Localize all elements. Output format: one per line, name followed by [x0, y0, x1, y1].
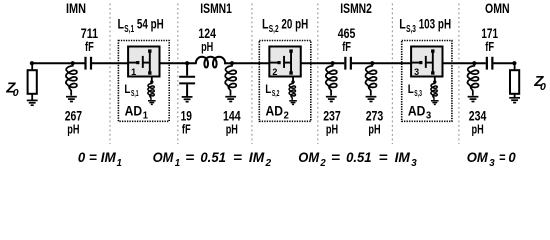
ground (small) [431, 101, 439, 105]
svg-text:20 pH: 20 pH [281, 16, 308, 32]
capacitor C1 711 fF (series) [86, 57, 92, 70]
svg-text:1: 1 [131, 67, 136, 77]
section separator (dotted) [177, 4, 179, 145]
svg-text:S,3: S,3 [406, 24, 416, 35]
capacitor C3 465 fF (series) [345, 57, 351, 70]
svg-text:pH: pH [368, 122, 380, 137]
amplifier stage dashed box AD3 [402, 41, 452, 122]
wire (cell 1 to L2) [159, 62, 193, 64]
svg-text:0: 0 [508, 149, 515, 165]
svg-text:1: 1 [117, 158, 123, 169]
svg-text:S,1: S,1 [124, 24, 134, 35]
section separator (dotted) [391, 4, 393, 145]
section separator (dotted) [251, 4, 253, 145]
inductor LS2 (source degeneration coil) [289, 82, 295, 100]
ground [27, 100, 38, 105]
wire [31, 94, 33, 101]
inductor L1 267 pH (shunt) [66, 63, 77, 95]
svg-text:3: 3 [411, 158, 417, 169]
svg-text:0.51: 0.51 [200, 149, 226, 165]
svg-text:pH: pH [326, 122, 338, 137]
wire (cell 3 to C4) [442, 62, 486, 64]
ground [509, 98, 520, 103]
svg-text:IM: IM [395, 149, 411, 165]
svg-text:2: 2 [272, 67, 277, 77]
svg-text:0: 0 [540, 81, 546, 93]
transistor Q2 (FET symbol) [269, 51, 291, 73]
section separator (dotted) [458, 4, 460, 145]
ground [366, 97, 377, 102]
svg-text:L: L [118, 16, 125, 32]
svg-text:L: L [262, 16, 269, 32]
svg-text:IM: IM [101, 149, 116, 165]
wire (C4 to output node) [494, 62, 515, 64]
svg-text:=: = [185, 149, 194, 165]
svg-text:=: = [379, 149, 388, 165]
transistor pins (pads) [277, 49, 292, 74]
svg-text:fF: fF [85, 39, 94, 54]
svg-text:ISMN1: ISMN1 [200, 0, 232, 16]
inductor L2 124 pH (series) [193, 57, 225, 68]
ground [326, 97, 337, 102]
svg-text:S,2: S,2 [269, 24, 279, 35]
svg-text:pH: pH [226, 122, 238, 137]
inductor L4 237 pH (shunt) [326, 63, 337, 95]
svg-text:=: = [89, 149, 97, 165]
node (output) [512, 61, 516, 65]
transistor cell box 3 [411, 47, 442, 77]
node (source) [433, 80, 436, 83]
svg-text:2: 2 [284, 111, 290, 122]
transistor pins (pads) [136, 49, 151, 74]
svg-text:pH: pH [201, 39, 213, 54]
ground (small) [289, 101, 297, 105]
amplifier stage dashed box AD2 [259, 41, 311, 122]
svg-text:0.51: 0.51 [346, 149, 372, 165]
svg-text:OM: OM [467, 149, 488, 165]
inductor LS1 (source degeneration coil) [148, 82, 154, 100]
ground [182, 97, 193, 102]
svg-text:L: L [399, 16, 406, 32]
svg-text:fF: fF [485, 39, 494, 54]
transistor cell box 2 [269, 47, 300, 77]
svg-text:L: L [124, 82, 130, 96]
svg-text:S,2: S,2 [272, 88, 280, 98]
transistor cell box 1 [128, 47, 159, 77]
node [370, 61, 374, 65]
svg-text:1: 1 [143, 111, 149, 122]
svg-text:L: L [408, 82, 414, 96]
svg-text:IMN: IMN [66, 0, 86, 16]
wire (source stub) [434, 77, 436, 82]
ground [225, 97, 236, 102]
svg-text:IM: IM [249, 149, 265, 165]
wire (down to Z0 source) [31, 63, 33, 70]
svg-text:fF: fF [342, 39, 351, 54]
transistor Q3 (FET symbol) [411, 51, 433, 73]
wire (C1 to cell 1) [92, 62, 128, 64]
node [331, 61, 335, 65]
wire (L2 to cell 2) [224, 62, 269, 64]
svg-text:OM: OM [298, 149, 319, 165]
svg-text:pH: pH [472, 122, 484, 137]
wire (source stub) [292, 77, 294, 82]
svg-text:54 pH: 54 pH [137, 16, 164, 32]
node [230, 61, 234, 65]
svg-text:0: 0 [78, 149, 85, 165]
node [185, 61, 189, 65]
resistor Z0 (load impedance) [510, 70, 519, 94]
wire (C3 to cell 3) [352, 62, 411, 64]
ground [468, 97, 479, 102]
svg-text:S,1: S,1 [131, 88, 139, 98]
inductor L6 234 pH (shunt) [468, 63, 479, 95]
node [472, 61, 476, 65]
wire (cell 2 to C3) [301, 62, 344, 64]
wire (down to Z0 load) [514, 63, 516, 70]
svg-text:0: 0 [13, 87, 19, 99]
node (input) [30, 61, 34, 65]
node (source) [291, 80, 294, 83]
svg-text:OMN: OMN [485, 0, 510, 16]
wire (input node to C1) [32, 62, 85, 64]
svg-text:=: = [331, 149, 340, 165]
svg-text:pH: pH [67, 122, 79, 137]
capacitor C2 19 fF (shunt) [179, 63, 195, 96]
section separator (dotted) [109, 4, 111, 145]
section separator (dotted) [317, 4, 319, 145]
svg-text:L: L [265, 82, 271, 96]
svg-text:fF: fF [182, 122, 191, 137]
node [71, 61, 75, 65]
svg-text:AD: AD [125, 102, 143, 118]
node (source) [150, 80, 153, 83]
svg-text:3: 3 [426, 111, 432, 122]
svg-text:S,3: S,3 [414, 88, 422, 98]
svg-text:=: = [233, 149, 242, 165]
transistor pins (pads) [419, 49, 434, 74]
wire (source stub) [151, 77, 153, 82]
ground (small) [148, 101, 156, 105]
ground [66, 97, 77, 102]
inductor L3 144 pH (shunt) [225, 63, 236, 95]
svg-text:2: 2 [264, 158, 271, 169]
svg-text:AD: AD [408, 102, 426, 118]
svg-text:103 pH: 103 pH [419, 16, 451, 32]
resistor Z0 (source impedance) [28, 70, 37, 94]
svg-text:AD: AD [266, 102, 284, 118]
capacitor C4 171 fF (series) [487, 57, 493, 70]
wire [514, 94, 516, 98]
inductor L5 273 pH (shunt) [366, 63, 377, 95]
transistor Q1 (FET symbol) [128, 51, 150, 73]
svg-text:OM: OM [153, 149, 174, 165]
amplifier stage dashed box AD1 [118, 41, 169, 122]
inductor LS3 (source degeneration coil) [431, 82, 437, 100]
svg-text:=: = [499, 149, 505, 165]
svg-text:2: 2 [319, 158, 326, 169]
svg-text:1: 1 [175, 158, 181, 169]
svg-text:ISMN2: ISMN2 [340, 0, 372, 16]
svg-text:3: 3 [489, 158, 495, 169]
svg-text:3: 3 [414, 67, 419, 77]
